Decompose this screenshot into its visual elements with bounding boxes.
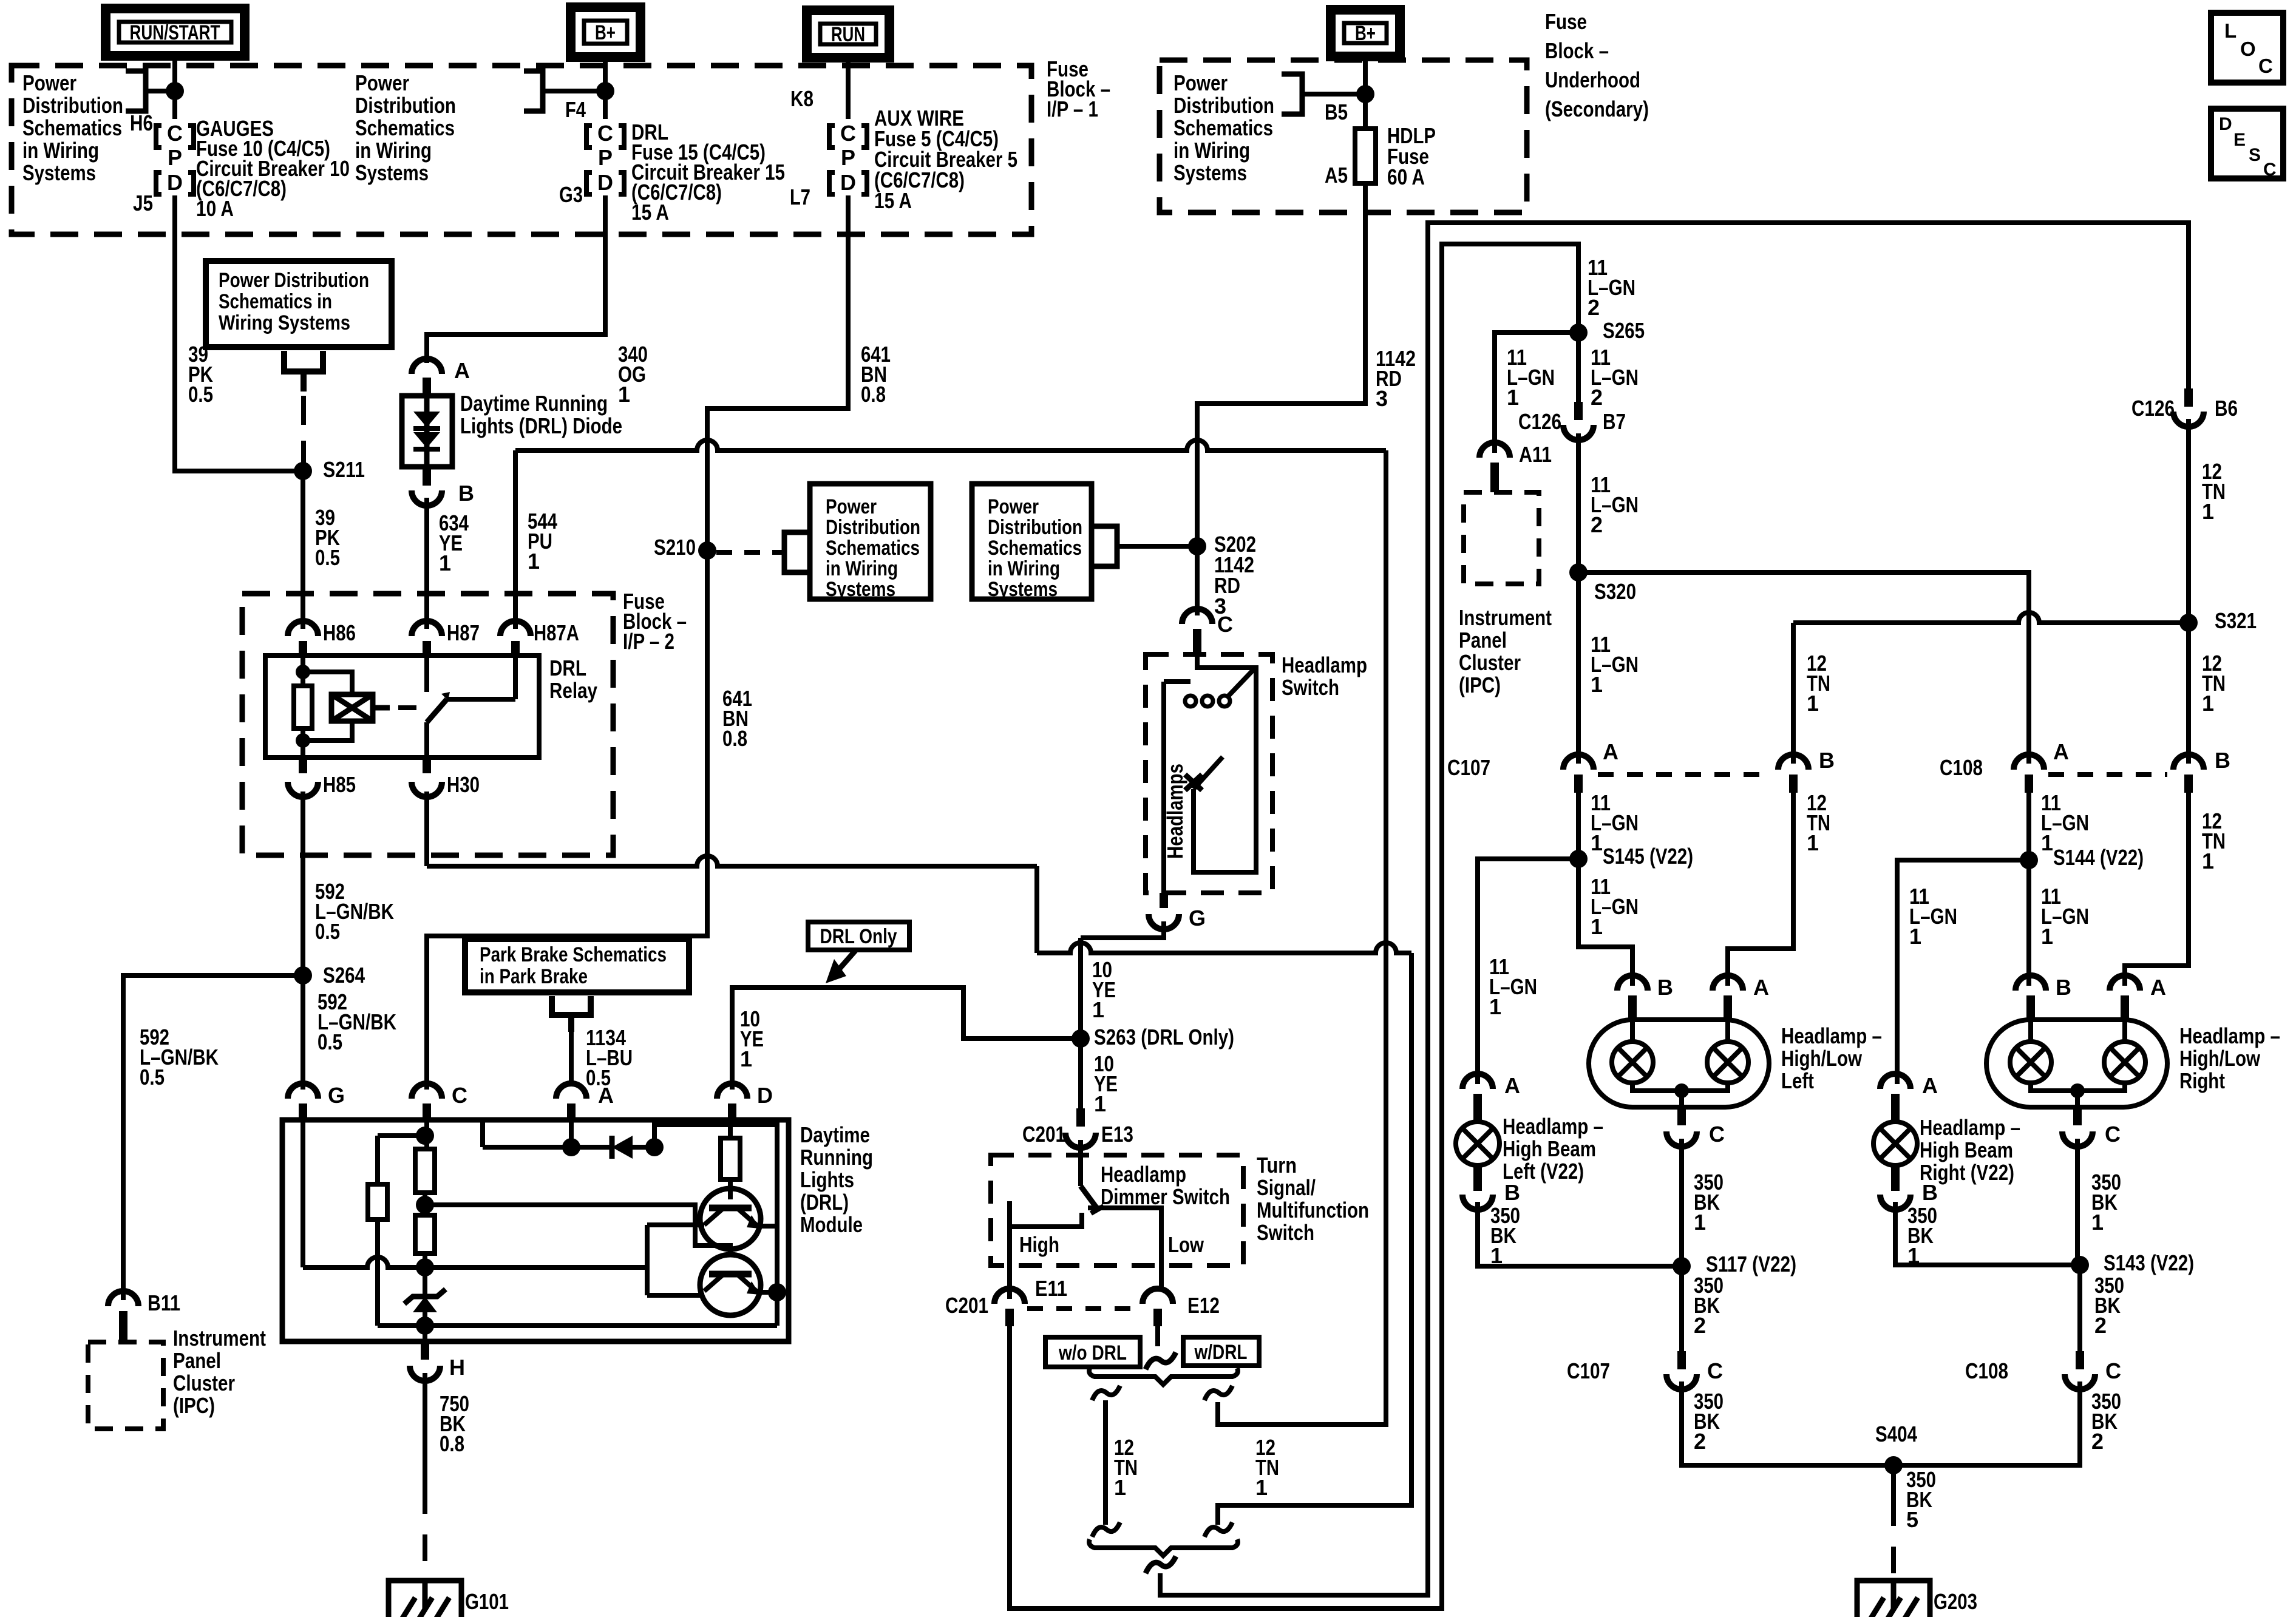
wire 592 L-GN/BK H85 to S264 to module G (301, 792, 305, 1090)
module wire left resistor top (375, 1136, 380, 1184)
svg-text:Headlamp –High BeamRight (V22): Headlamp –High BeamRight (V22) (1920, 1115, 2020, 1185)
bracket PD schematics (HDLP) (1282, 74, 1302, 114)
dimmer Low contact (1088, 1208, 1161, 1292)
module wire left resistor bottom (375, 1219, 380, 1326)
splice S211 (294, 462, 312, 480)
DRL diode box (402, 396, 452, 467)
connector E12 of C201 (1143, 1289, 1173, 1304)
svg-text:L7: L7 (790, 185, 810, 209)
svg-text:D: D (597, 170, 613, 195)
svg-text:G203: G203 (1934, 1589, 1977, 1614)
splice S264 (294, 966, 312, 985)
wire PD bracket to S202 (1117, 544, 1197, 549)
wire 350 BK high beam right to S143 (1895, 1202, 2080, 1265)
svg-text:S144 (V22): S144 (V22) (2053, 845, 2144, 870)
svg-text:w/DRL: w/DRL (1194, 1341, 1248, 1364)
connector G of headlamp switch (1149, 914, 1179, 929)
wire 11 L-GN S145 to high beam left A (1478, 859, 1578, 1084)
lamp left high/low filament 2 (1707, 1042, 1748, 1083)
svg-text:S211: S211 (323, 457, 365, 482)
svg-text:B: B (2056, 975, 2071, 1000)
svg-text:S321: S321 (2215, 608, 2257, 633)
wire 350 BK right lamp to S143 (2075, 1139, 2080, 1265)
svg-text:A5: A5 (1325, 163, 1348, 188)
svg-text:C: C (2263, 160, 2277, 180)
wire RUN/START fuse to S211 (175, 195, 303, 471)
splice S210 (698, 541, 716, 560)
svg-text:A11: A11 (1519, 442, 1552, 467)
wire 340 OG fuse G3 to DRL diode A (427, 195, 605, 363)
wire bracket to RUN/START feed (146, 89, 175, 93)
fuse block I/P-2 dashed outline (242, 594, 613, 855)
svg-text:E13: E13 (1101, 1122, 1133, 1147)
connector C108 pin A (2014, 754, 2044, 770)
connector A11 of IPC (1479, 442, 1510, 458)
relay switch contact and armature (424, 656, 429, 692)
wire 10 YE headlamp switch G to S263 to E13 (1078, 938, 1083, 1108)
wire 641 BN L7 to S210 to DRL module C (427, 195, 848, 1090)
svg-text:A: A (1504, 1073, 1520, 1098)
module emitter rail (378, 1323, 777, 1328)
svg-text:C: C (2258, 55, 2273, 77)
connector C of headlamp switch (1182, 609, 1212, 624)
svg-text:w/o DRL: w/o DRL (1058, 1341, 1127, 1364)
wire into left high filament (1725, 1022, 1730, 1042)
svg-text:RUN: RUN (831, 23, 865, 46)
wire 11 L-GN S320 to C107 A (1576, 572, 1581, 764)
wire 544 PU down right side to w/DRL curl (1218, 450, 1386, 1425)
fuse block I/P-1 dashed outline (12, 66, 1031, 234)
splice S404 (1884, 1456, 1903, 1474)
splice S143 (2071, 1256, 2089, 1274)
curl w/DRL lower (1204, 1522, 1232, 1537)
wire E12 to options merge (1155, 1326, 1160, 1346)
merge symbol above 12 TN out (1146, 1556, 1176, 1573)
svg-text:F4: F4 (565, 97, 586, 122)
connector C of DRL module (412, 1083, 442, 1099)
splice S202 (1188, 537, 1206, 555)
dimmer High contact (1010, 1213, 1082, 1299)
bracket PD schematics (fuse1) (126, 71, 146, 111)
resistor R3 in DRL module (415, 1215, 435, 1253)
wire to relay coil top (303, 672, 352, 694)
svg-text:P: P (841, 145, 855, 170)
svg-text:D: D (2219, 114, 2232, 134)
svg-text:C: C (2105, 1358, 2121, 1383)
wire into right low filament (2028, 1022, 2033, 1042)
module wire left resistor to C chain (378, 1133, 425, 1138)
connector B of headlamp high beam left (1462, 1195, 1493, 1210)
svg-text:C: C (1217, 612, 1233, 637)
wire 11 L-GN 2 S265 to C126 B7 (1576, 333, 1581, 402)
dashed wire S210 to PD bracket (716, 550, 784, 555)
wire left lamp common out (1679, 1091, 1684, 1107)
bracket PD schematics (fuse2) (524, 71, 543, 111)
module junction right of diode (645, 1138, 664, 1156)
svg-text:High: High (1019, 1232, 1059, 1257)
splice S265 (1569, 324, 1588, 342)
connector A of DRL module (556, 1083, 586, 1099)
wire 12 TN down to C107 B (1791, 623, 1796, 764)
svg-text:S263 (DRL Only): S263 (DRL Only) (1094, 1025, 1234, 1049)
resistor R-left in DRL module (368, 1184, 387, 1219)
connector B7 of C126 (1563, 425, 1594, 440)
module wire G pin down (301, 1120, 305, 1267)
wire 11 L-GN E11 high-beam trunk to S265 (1010, 244, 1578, 1609)
junction left lamp common (1674, 1083, 1689, 1098)
park brake schematics box (465, 939, 689, 992)
connector H86 of DRL relay (288, 621, 318, 636)
dimmer switch armature (1081, 1186, 1098, 1209)
connector H of DRL module (410, 1366, 440, 1381)
svg-text:H: H (449, 1355, 465, 1380)
wire right lamp common out (2075, 1091, 2080, 1107)
module wire to Q1 collector (647, 1222, 704, 1227)
svg-text:C: C (1709, 1122, 1725, 1147)
svg-text:C: C (1707, 1358, 1723, 1383)
connector H87A of DRL relay (500, 621, 531, 636)
bracket below PD box (S211) (284, 351, 323, 371)
turn signal/multifunction switch dashed box (991, 1155, 1243, 1266)
svg-text:H87A: H87A (534, 620, 579, 645)
module junction Q2 emitter (768, 1283, 786, 1301)
svg-text:C: C (167, 121, 183, 146)
curl w/DRL upper (1204, 1386, 1232, 1400)
svg-text:H6: H6 (130, 110, 153, 135)
svg-text:Headlamps: Headlamps (1163, 764, 1187, 859)
wire RUN to AUX fuse (846, 58, 851, 119)
wire headlamps rail to w/o DRL feed (1037, 943, 1411, 953)
module junction on G rail (416, 1258, 434, 1276)
svg-text:A: A (454, 358, 470, 383)
module junction R2/R3 (416, 1196, 434, 1214)
svg-text:P: P (598, 145, 613, 170)
svg-text:S143 (V22): S143 (V22) (2104, 1250, 2194, 1275)
connector C of headlamp high/low right (2062, 1131, 2093, 1147)
power feed box B+ (left) (571, 7, 640, 57)
junction right lamp common (2070, 1083, 2085, 1098)
wire left lamp common (1632, 1083, 1728, 1091)
curl w/o DRL upper (1092, 1386, 1120, 1400)
transistor Q2 in DRL module (700, 1255, 761, 1315)
connector D of DRL module (717, 1083, 747, 1099)
wire 350 BK C107 C to S404 (1682, 1381, 1894, 1465)
connector A of headlamp high/low right (2110, 975, 2140, 991)
LOC legend box (2211, 13, 2283, 83)
svg-text:S265: S265 (1603, 318, 1645, 343)
svg-text:B+: B+ (1355, 22, 1376, 45)
headlamp switch internal path (1194, 654, 1256, 872)
svg-text:L: L (2224, 19, 2237, 42)
svg-text:C126: C126 (1518, 409, 1561, 434)
wire 12 TN S321 to C107 B (1793, 612, 2189, 623)
wire H30 down (424, 792, 429, 866)
splice S263 (1072, 1029, 1090, 1048)
module wire junction to Q2 base (425, 1205, 730, 1255)
module junction at C chain top (416, 1127, 434, 1145)
svg-text:H86: H86 (323, 620, 356, 645)
fuse GAUGES Fuse10/CB10 (C P D) (167, 121, 183, 195)
w/DRL callout box (1183, 1337, 1259, 1366)
svg-text:S264: S264 (323, 963, 365, 988)
svg-text:S210: S210 (654, 535, 696, 560)
PD schematics box (S202) (972, 484, 1092, 599)
connector H85 of DRL relay (288, 782, 318, 797)
wire 12 TN C107 B to high/low left A (1728, 793, 1793, 986)
module collector tie vertical upper (645, 1225, 650, 1267)
module wire D pin to R4 (728, 1120, 733, 1138)
svg-text:A: A (1753, 975, 1769, 1000)
splice S145 (1569, 850, 1588, 868)
svg-text:Low: Low (1168, 1232, 1204, 1257)
svg-text:S404: S404 (1875, 1422, 1917, 1446)
dashed link coil to armature (398, 705, 420, 710)
wire 12 TN C108 B to high/low right A (2125, 793, 2189, 986)
zener diode in DRL module (413, 1297, 437, 1312)
module wire C pin down (424, 1120, 429, 1149)
dashed connector line C201 E11-E12 (1027, 1306, 1143, 1311)
lamp high beam right (1873, 1122, 1917, 1165)
splice S117 (1673, 1257, 1691, 1275)
svg-text:A: A (598, 1083, 614, 1108)
fuse HDLP 60A (1355, 129, 1376, 183)
DRL relay box (265, 656, 539, 758)
wire headlamp switch G jog to 10 YE (1081, 921, 1164, 938)
svg-text:B: B (458, 481, 474, 506)
daytime running lights DRL module box (282, 1120, 789, 1341)
svg-text:B6: B6 (2215, 396, 2238, 421)
diode in DRL module (612, 1136, 633, 1159)
svg-text:C: C (840, 121, 856, 146)
wire 350 BK left lamp to S117 (1679, 1139, 1684, 1266)
splice S144 (2020, 851, 2038, 869)
wire 11 L-GN C108 A to S144 (2026, 793, 2031, 860)
bracket PD schematics (S210) (784, 532, 810, 572)
svg-text:G101: G101 (465, 1589, 509, 1614)
resistor R4 in DRL module (721, 1138, 740, 1179)
svg-text:J5: J5 (133, 191, 153, 215)
connector A of headlamp high/low left (1713, 975, 1743, 991)
connector C of headlamp high/low left (1666, 1131, 1697, 1147)
wire headlamps rail down to w/o DRL curl (1218, 953, 1411, 1525)
wire 12 TN w/o DRL direct (1103, 1400, 1108, 1525)
wire bracket to DRL feed (543, 89, 605, 93)
svg-text:B5: B5 (1325, 100, 1348, 124)
wire into left low filament (1630, 1022, 1635, 1042)
wire E13 into dimmer (1078, 1140, 1083, 1186)
wire S211 to relay H86 (301, 471, 305, 629)
wire bracket to HDLP feed (1302, 92, 1365, 97)
wire 544 PU vertical at H87A (513, 450, 518, 629)
connector C107 pin A (1563, 754, 1594, 770)
svg-text:S145 (V22): S145 (V22) (1603, 844, 1693, 869)
wire 750 BK module H to G101 (423, 1373, 427, 1487)
svg-text:C201: C201 (1022, 1122, 1065, 1147)
svg-text:D: D (840, 170, 856, 195)
connector C107 pin C (1666, 1374, 1697, 1389)
svg-text:D: D (167, 170, 183, 195)
wire 350 BK high beam left to S117 (1478, 1202, 1682, 1266)
headlamp high/low right housing (1986, 1020, 2167, 1107)
module staple to emitter bus (654, 1125, 777, 1326)
wire 544 PU H87A to w/DRL feed (515, 440, 1386, 450)
connector C108 pin B (2173, 754, 2204, 770)
resistor R2 in DRL module (415, 1149, 435, 1193)
wire 11 L-GN S144 to high/low right B (2026, 860, 2031, 986)
wire 12 TN B6 to S321 (2186, 419, 2191, 623)
lamp left high/low filament 1 (1612, 1042, 1653, 1083)
svg-text:C107: C107 (1447, 755, 1490, 780)
svg-text:B+: B+ (595, 21, 616, 44)
diode symbols inside DRL diode (413, 412, 440, 427)
wire RUN/START into fuse (172, 56, 177, 119)
connector B6 of C126 (2173, 412, 2204, 427)
dashed wire to G101 (423, 1487, 427, 1578)
svg-text:G3: G3 (559, 182, 583, 207)
lamp high beam left (1456, 1122, 1500, 1165)
connector G of DRL module (288, 1083, 318, 1099)
ground G101 (389, 1581, 461, 1617)
module wire to Q2 collector (647, 1293, 704, 1298)
wire from relay coil bottom (303, 721, 352, 741)
svg-text:Daytime RunningLights (DRL) Di: Daytime RunningLights (DRL) Diode (460, 391, 622, 438)
power feed box B+ (right) (1331, 10, 1400, 56)
wire 592 L-GN/BK S264 to IPC B11 (123, 975, 303, 1300)
power feed box RUN (807, 10, 889, 58)
svg-text:C108: C108 (1940, 755, 1983, 780)
svg-text:DRL Only: DRL Only (820, 925, 897, 948)
svg-text:S: S (2249, 145, 2261, 165)
module wire Q1 emitter to bus (758, 1224, 777, 1229)
svg-text:A: A (1603, 739, 1618, 764)
dashed connector line C107 A-B (1598, 772, 1773, 777)
headlamp switch output line (1161, 682, 1166, 893)
dashed wire to G203 (1891, 1499, 1896, 1578)
fuse block underhood (secondary) dashed outline (1160, 60, 1527, 212)
resistor in DRL relay (294, 686, 312, 728)
module collector tie vertical (645, 1267, 650, 1295)
instrument panel cluster dashed box (left) (88, 1342, 163, 1429)
merge symbol below E12 (1146, 1352, 1176, 1369)
power feed box RUN/START (106, 8, 245, 56)
svg-text:C: C (452, 1083, 467, 1108)
wire 350 BK S404 down (1891, 1465, 1896, 1499)
svg-text:G: G (1189, 906, 1206, 931)
lamp right high/low filament 2 (2104, 1042, 2145, 1083)
arrow from DRL Only box (834, 950, 856, 975)
module wire A pin down (569, 1120, 574, 1147)
svg-text:O: O (2240, 38, 2256, 60)
connector E13 of C201 (1065, 1133, 1096, 1148)
connector B of headlamp high/low right (2016, 975, 2046, 991)
fuse AUX WIRE Fuse5/CB5 (C P D) (840, 121, 856, 195)
PD schematics box (S210) (810, 484, 931, 599)
connector A of headlamp high beam left (1462, 1074, 1493, 1089)
lamp right high/low filament 1 (2010, 1042, 2051, 1083)
svg-text:P: P (168, 145, 182, 170)
options brace lower (1089, 1539, 1238, 1556)
svg-text:C: C (597, 121, 613, 146)
bracket below park brake box (552, 996, 591, 1015)
svg-text:G: G (328, 1083, 345, 1108)
module wire between R2 and R3 (423, 1193, 427, 1215)
wire right lamp common (2031, 1083, 2125, 1091)
wire 11 L-GN S144 to high beam right A (1897, 860, 2029, 1084)
wire headlamps rail drop (1034, 866, 1039, 953)
wire 1134 L-BU park brake to module A (569, 1032, 574, 1086)
headlamp switch dashed box (1146, 654, 1272, 893)
module wire R4 to Q1 base (728, 1179, 733, 1199)
svg-text:H85: H85 (323, 772, 356, 797)
connector E11 of C201 (994, 1289, 1025, 1304)
wire into right high filament (2122, 1022, 2127, 1042)
splice S321 (2179, 614, 2198, 632)
svg-text:B7: B7 (1603, 409, 1626, 434)
svg-text:S320: S320 (1594, 579, 1636, 604)
svg-text:H87: H87 (447, 620, 480, 645)
wire 1142 RD A5 to S202 to headlamp switch C (1197, 183, 1365, 615)
wire 12 TN low-beam trunk to C126 B6 (1160, 223, 2189, 1595)
module stub left of diode rail (480, 1120, 485, 1147)
svg-text:H30: H30 (447, 772, 480, 797)
module wire R3 to rail (423, 1253, 427, 1290)
curl w/o DRL lower (1092, 1522, 1120, 1537)
svg-text:D: D (757, 1083, 773, 1108)
wire 350 BK C108 C to S404 (1894, 1381, 2080, 1465)
wire 11 L-GN B7 to S320 (1576, 433, 1581, 572)
svg-text:B: B (2215, 748, 2230, 773)
headlamp high/low left housing (1589, 1020, 1769, 1107)
connector H87 of DRL relay (412, 621, 442, 636)
dashed wire PD box to S211 (301, 396, 306, 464)
junction on DRL feed (596, 82, 614, 100)
w/o DRL callout box (1045, 1337, 1140, 1367)
wire 10 YE DRL-only branch to S263 (732, 988, 1081, 1090)
DRL Only callout box (808, 922, 909, 950)
instrument panel cluster dashed box (right) (1464, 492, 1539, 584)
wire B+ to DRL fuse (603, 57, 608, 119)
bracket PD schematics (S202) (1092, 526, 1117, 566)
connector H30 of DRL relay (412, 782, 442, 797)
relay coil (box with X) (331, 694, 373, 721)
module rail from G (303, 1257, 647, 1267)
svg-text:E11: E11 (1035, 1276, 1067, 1301)
module junction at A pin (562, 1138, 580, 1156)
svg-text:A: A (2150, 975, 2166, 1000)
module diode rail left (483, 1145, 612, 1150)
junction on RUN/START feed (166, 82, 184, 100)
svg-text:B: B (1819, 748, 1835, 773)
svg-text:E: E (2233, 130, 2246, 150)
svg-text:B: B (1504, 1180, 1520, 1205)
connector B of DRL diode (412, 490, 442, 506)
junction on HDLP feed (1356, 85, 1374, 103)
svg-text:C108: C108 (1965, 1358, 2008, 1383)
connector B of headlamp high/low left (1617, 975, 1648, 991)
svg-text:K8: K8 (790, 86, 813, 111)
ground G203 (1857, 1581, 1930, 1617)
fuse DRL Fuse15/CB15 (C P D) (597, 121, 613, 195)
connector B of headlamp high beam right (1880, 1195, 1911, 1210)
wire 350 BK S143 to C108 C (2077, 1265, 2082, 1351)
wire 11 L-GN S320 to C108 A (1578, 572, 2029, 764)
transistor Q1 in DRL module (700, 1188, 761, 1249)
svg-text:A: A (1922, 1073, 1938, 1098)
module wire Q2 emitter to bus (758, 1290, 777, 1295)
svg-text:B11: B11 (148, 1290, 180, 1315)
wire 11 L-GN 1 S265 to IPC A11 (1495, 333, 1578, 453)
svg-text:B: B (1657, 975, 1673, 1000)
